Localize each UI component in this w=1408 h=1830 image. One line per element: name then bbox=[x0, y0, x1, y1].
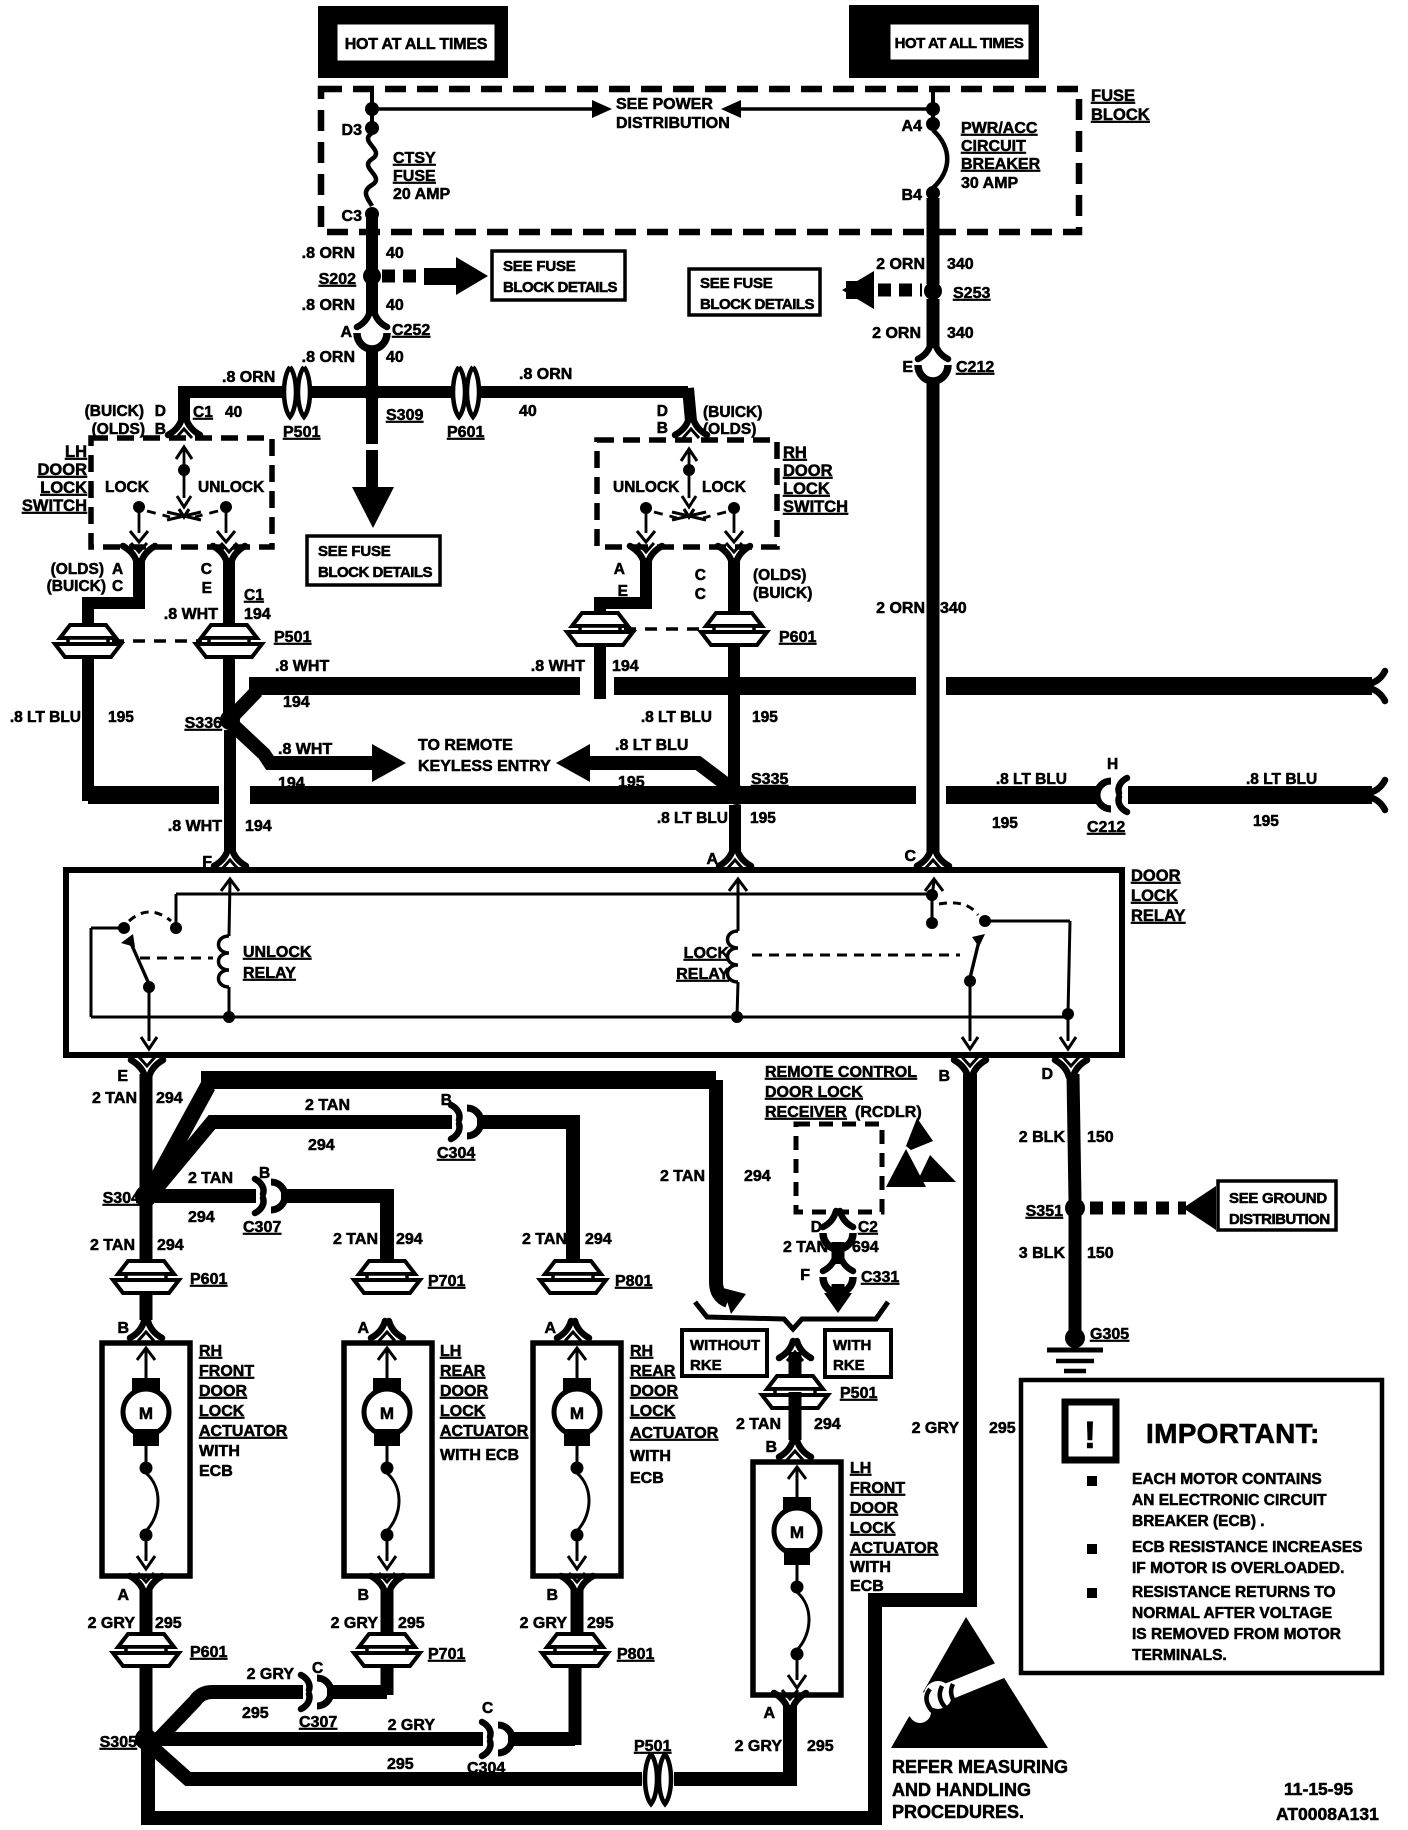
svg-text:2 TAN: 2 TAN bbox=[90, 1237, 135, 1254]
node A4 bbox=[926, 117, 940, 131]
svg-text:3 BLK: 3 BLK bbox=[1019, 1245, 1066, 1262]
svg-text:WITH ECB: WITH ECB bbox=[440, 1447, 519, 1464]
svg-text:2 TAN: 2 TAN bbox=[736, 1416, 781, 1433]
svg-text:295: 295 bbox=[989, 1420, 1016, 1437]
LH switch LOCK contact bbox=[133, 501, 145, 513]
ESD symbol small bbox=[886, 1149, 926, 1187]
splice S309 bbox=[363, 383, 381, 401]
connector C212 pin H inline bbox=[1097, 778, 1127, 812]
svg-text:C252: C252 bbox=[392, 322, 430, 339]
svg-text:C: C bbox=[201, 561, 212, 578]
svg-text:G305: G305 bbox=[1090, 1326, 1129, 1343]
svg-text:LOCK: LOCK bbox=[440, 1403, 486, 1420]
splice S351 bbox=[1065, 1198, 1085, 1218]
node junction above D3 bbox=[365, 102, 379, 116]
svg-text:40: 40 bbox=[386, 349, 404, 366]
svg-text:2 ORN: 2 ORN bbox=[876, 256, 925, 273]
svg-text:40: 40 bbox=[386, 297, 404, 314]
grommet P801 upper bbox=[540, 1261, 606, 1293]
svg-text:ACTUATOR: ACTUATOR bbox=[199, 1423, 288, 1440]
svg-text:S304: S304 bbox=[103, 1190, 140, 1207]
RH switch pin C/C exit bbox=[718, 543, 750, 563]
svg-text:.8 LT BLU: .8 LT BLU bbox=[657, 810, 728, 827]
svg-text:B: B bbox=[357, 1587, 369, 1604]
svg-text:.8 LT BLU: .8 LT BLU bbox=[1246, 771, 1317, 788]
svg-text:C: C bbox=[904, 848, 916, 865]
svg-text:195: 195 bbox=[108, 709, 134, 726]
grommet P801 lower bbox=[542, 1634, 608, 1666]
grommet P501 left bbox=[55, 625, 121, 657]
grommet P601 lower bbox=[113, 1634, 179, 1666]
svg-text:LH: LH bbox=[440, 1343, 461, 1360]
svg-text:DOOR: DOOR bbox=[783, 462, 833, 480]
grommet P701 lower bbox=[354, 1634, 420, 1666]
important note box bbox=[1021, 1380, 1382, 1673]
svg-text:(RCDLR): (RCDLR) bbox=[855, 1104, 922, 1121]
svg-text:340: 340 bbox=[947, 325, 974, 342]
svg-text:A4: A4 bbox=[902, 118, 923, 135]
wire RH pin C/C down to S335 bbox=[728, 558, 740, 800]
wire3 .8 WHT to keyless entry arrow bbox=[234, 726, 374, 763]
svg-text:340: 340 bbox=[947, 256, 974, 273]
svg-text:294: 294 bbox=[396, 1231, 423, 1248]
svg-text:LOCK: LOCK bbox=[40, 479, 87, 497]
svg-text:194: 194 bbox=[612, 658, 639, 675]
svg-text:294: 294 bbox=[308, 1137, 335, 1154]
svg-text:C307: C307 bbox=[299, 1714, 337, 1731]
svg-text:BLOCK DETAILS: BLOCK DETAILS bbox=[700, 296, 815, 313]
svg-text:RECEIVER: RECEIVER bbox=[765, 1104, 847, 1121]
svg-text:B: B bbox=[441, 1092, 452, 1109]
svg-text:.8 ORN: .8 ORN bbox=[302, 349, 355, 366]
svg-text:C: C bbox=[112, 578, 123, 595]
svg-text:P501: P501 bbox=[274, 629, 311, 646]
dashed stub left of S253 bbox=[878, 284, 922, 297]
wire C331 down with arrow bbox=[832, 1284, 845, 1296]
grommet P601 upper bbox=[113, 1261, 179, 1293]
bar1: 2 TAN to RCDLR branch bbox=[150, 1086, 208, 1192]
svg-text:(BUICK): (BUICK) bbox=[85, 403, 144, 420]
svg-text:2 TAN: 2 TAN bbox=[660, 1168, 705, 1185]
svg-text:A: A bbox=[706, 851, 718, 868]
svg-text:.8 WHT: .8 WHT bbox=[164, 606, 218, 623]
svg-text:P501: P501 bbox=[283, 424, 320, 441]
svg-text:LOCK: LOCK bbox=[630, 1403, 676, 1420]
lock contact bbox=[979, 915, 991, 927]
svg-text:RH: RH bbox=[199, 1343, 222, 1360]
svg-text:.8 ORN: .8 ORN bbox=[302, 297, 355, 314]
svg-text:SWITCH: SWITCH bbox=[783, 498, 848, 516]
RH switch LOCK contact bbox=[728, 502, 740, 514]
svg-text:AN ELECTRONIC CIRCUIT: AN ELECTRONIC CIRCUIT bbox=[1132, 1492, 1327, 1509]
wire S304 down to P601 grommet bbox=[140, 1205, 153, 1320]
svg-text:195: 195 bbox=[752, 709, 778, 726]
svg-text:ACTUATOR: ACTUATOR bbox=[850, 1540, 939, 1557]
svg-text:AT0008A131: AT0008A131 bbox=[1276, 1804, 1379, 1824]
svg-text:A: A bbox=[763, 1705, 775, 1722]
svg-text:(BUICK): (BUICK) bbox=[753, 585, 812, 602]
WITH RKE box bbox=[825, 1330, 891, 1377]
svg-text:KEYLESS ENTRY: KEYLESS ENTRY bbox=[418, 758, 551, 775]
svg-text:DOOR: DOOR bbox=[199, 1383, 247, 1400]
svg-text:EACH MOTOR CONTAINS: EACH MOTOR CONTAINS bbox=[1132, 1471, 1322, 1488]
svg-text:DOOR: DOOR bbox=[1131, 867, 1181, 885]
svg-text:E: E bbox=[117, 1068, 128, 1085]
svg-text:S305: S305 bbox=[100, 1734, 137, 1751]
svg-text:A: A bbox=[544, 1320, 556, 1337]
svg-text:A: A bbox=[614, 561, 625, 578]
fuse CTSY 20A element squiggle bbox=[366, 133, 376, 206]
svg-text:LOCK: LOCK bbox=[105, 479, 150, 496]
svg-text:UNLOCK: UNLOCK bbox=[243, 944, 312, 961]
callout box SEE FUSE BLOCK DETAILS (mid left) bbox=[307, 536, 440, 585]
svg-text:ACTUATOR: ACTUATOR bbox=[440, 1423, 529, 1440]
svg-text:WITH: WITH bbox=[850, 1559, 891, 1576]
wire below S309 with break bbox=[366, 398, 378, 444]
svg-text:ECB: ECB bbox=[630, 1470, 664, 1487]
RH front door lock actuator bbox=[102, 1343, 190, 1576]
svg-text:DOOR: DOOR bbox=[630, 1383, 678, 1400]
svg-text:C: C bbox=[695, 586, 706, 603]
svg-text:C304: C304 bbox=[437, 1145, 475, 1162]
bar5: 2 GRY via C304 to P801 bbox=[155, 1732, 483, 1746]
svg-text:2 GRY: 2 GRY bbox=[247, 1666, 295, 1683]
svg-text:RELAY: RELAY bbox=[676, 966, 729, 983]
svg-text:295: 295 bbox=[155, 1615, 182, 1632]
svg-text:FUSE: FUSE bbox=[393, 168, 436, 185]
svg-text:LH: LH bbox=[65, 443, 87, 461]
svg-text:.8 ORN: .8 ORN bbox=[302, 245, 355, 262]
svg-text:UNLOCK: UNLOCK bbox=[613, 479, 680, 496]
wire below bracket notch bbox=[779, 1341, 811, 1361]
svg-text:P601: P601 bbox=[779, 629, 816, 646]
svg-text:294: 294 bbox=[156, 1090, 183, 1107]
splice S336 bbox=[220, 710, 240, 730]
svg-text:ECB: ECB bbox=[850, 1578, 884, 1595]
WITHOUT RKE box bbox=[682, 1330, 767, 1376]
wire4 .8 LT BLU from keyless entry bbox=[556, 744, 590, 782]
svg-text:C: C bbox=[312, 1660, 323, 1677]
LH door lock switch dashed box bbox=[91, 438, 272, 547]
svg-text:.8 LT BLU: .8 LT BLU bbox=[996, 771, 1067, 788]
fat arrow pointing left into callout bbox=[842, 271, 874, 309]
svg-text:C212: C212 bbox=[1087, 819, 1125, 836]
relay internal: pin A arrow bbox=[729, 879, 747, 891]
wire RH pin A/E down-left to grommet and wire1 bbox=[600, 558, 646, 699]
relay pin F connector bbox=[214, 849, 246, 869]
svg-text:SEE FUSE: SEE FUSE bbox=[503, 258, 576, 275]
internal line1 top bbox=[176, 893, 932, 896]
wire 2 ORN from B4 down to S253 bbox=[927, 198, 940, 284]
unlock fixed contact left bbox=[118, 922, 130, 934]
svg-text:194: 194 bbox=[245, 818, 272, 835]
svg-text:D3: D3 bbox=[342, 122, 363, 139]
grommet P501 right bbox=[196, 625, 262, 657]
svg-text:DOOR LOCK: DOOR LOCK bbox=[765, 1084, 863, 1101]
svg-text:P701: P701 bbox=[428, 1273, 465, 1290]
svg-text:2 TAN: 2 TAN bbox=[522, 1231, 567, 1248]
svg-text:(OLDS): (OLDS) bbox=[703, 421, 756, 438]
svg-text:340: 340 bbox=[940, 600, 967, 617]
RH door lock switch connector entry bbox=[675, 418, 707, 438]
svg-text:2 ORN: 2 ORN bbox=[872, 325, 921, 342]
svg-text:BLOCK DETAILS: BLOCK DETAILS bbox=[318, 564, 433, 581]
svg-text:WITH: WITH bbox=[630, 1448, 671, 1465]
svg-text:DOOR: DOOR bbox=[38, 461, 88, 479]
svg-text:A: A bbox=[357, 1320, 369, 1337]
svg-text:PROCEDURES.: PROCEDURES. bbox=[892, 1802, 1024, 1822]
svg-text:REMOTE CONTROL: REMOTE CONTROL bbox=[765, 1064, 917, 1081]
wire LH pin C/E down to S336 bbox=[223, 558, 235, 724]
svg-text:S336: S336 bbox=[185, 715, 222, 732]
wires through lower grommets bbox=[140, 1635, 153, 1730]
svg-text:11-15-95: 11-15-95 bbox=[1284, 1779, 1353, 1799]
callout box SEE FUSE BLOCK DETAILS (upper left) bbox=[492, 251, 625, 300]
wire from left HOT feed into fuse block bbox=[370, 89, 374, 130]
wire 2 ORN long vertical down to relay pin C bbox=[927, 380, 940, 852]
wire grommet to LH front actuator pin B bbox=[789, 1392, 802, 1440]
svg-text:E: E bbox=[202, 580, 212, 597]
svg-text:2 BLK: 2 BLK bbox=[1019, 1129, 1066, 1146]
splice S202 bbox=[363, 267, 381, 285]
LH switch pin C/E exit bbox=[213, 543, 245, 563]
node C3 bbox=[365, 207, 379, 221]
svg-text:B: B bbox=[117, 1320, 129, 1337]
dashed stub right of S351 bbox=[1090, 1202, 1186, 1215]
svg-text:P501: P501 bbox=[840, 1385, 877, 1402]
connector C252 bbox=[357, 311, 387, 349]
svg-text:C1: C1 bbox=[244, 587, 264, 604]
arrow to SEE POWER DISTRIBUTION (right) bbox=[741, 107, 933, 111]
svg-text:LOCK: LOCK bbox=[783, 480, 830, 498]
svg-text:.8 WHT: .8 WHT bbox=[275, 658, 329, 675]
svg-text:SEE GROUND: SEE GROUND bbox=[1229, 1190, 1327, 1207]
ESD symbol large bbox=[891, 1617, 1048, 1748]
bullet 1 bbox=[1087, 1476, 1097, 1486]
RH switch pin A/E exit bbox=[630, 543, 662, 563]
svg-text:195: 195 bbox=[750, 810, 776, 827]
svg-text:RKE: RKE bbox=[690, 1357, 722, 1374]
svg-text:P801: P801 bbox=[615, 1273, 652, 1290]
svg-text:LOCK: LOCK bbox=[684, 945, 730, 962]
svg-text:M: M bbox=[139, 1404, 153, 1423]
svg-text:2 GRY: 2 GRY bbox=[735, 1738, 783, 1755]
svg-text:REAR: REAR bbox=[630, 1363, 676, 1380]
door lock relay box bbox=[66, 870, 1122, 1055]
relay internal: pin C arrow bbox=[925, 879, 943, 891]
svg-text:195: 195 bbox=[992, 815, 1018, 832]
wire C2 to C331 bbox=[832, 1242, 845, 1264]
svg-text:DOOR: DOOR bbox=[440, 1383, 488, 1400]
svg-text:2 GRY: 2 GRY bbox=[331, 1615, 379, 1632]
wire 2 BLK from relay pin D to S351 bbox=[1073, 1074, 1075, 1200]
svg-text:B: B bbox=[546, 1587, 558, 1604]
svg-text:A: A bbox=[340, 324, 352, 341]
svg-text:(BUICK): (BUICK) bbox=[47, 578, 106, 595]
wire 3 BLK S351 to G305 bbox=[1069, 1216, 1082, 1332]
unlock armature bbox=[130, 941, 149, 984]
relay pin A connector bbox=[719, 849, 751, 869]
bar2: 2 TAN via C304 to P801 bbox=[152, 1122, 452, 1194]
svg-text:IS REMOVED FROM MOTOR: IS REMOVED FROM MOTOR bbox=[1132, 1626, 1341, 1643]
relay pin D connector bbox=[1055, 1057, 1087, 1077]
svg-text:DISTRIBUTION: DISTRIBUTION bbox=[616, 115, 730, 132]
svg-text:WITH: WITH bbox=[833, 1337, 871, 1354]
fuse block dashed border bbox=[321, 89, 1079, 232]
svg-text:S253: S253 bbox=[953, 285, 990, 302]
RCDLR dashed box bbox=[796, 1124, 882, 1212]
RH rear door lock actuator bbox=[533, 1343, 621, 1576]
bar4: 2 GRY via C307 to P701 bbox=[152, 1692, 303, 1746]
svg-text:REAR: REAR bbox=[440, 1363, 486, 1380]
svg-text:2 TAN: 2 TAN bbox=[188, 1170, 233, 1187]
lock armature bbox=[970, 941, 979, 978]
svg-text:P801: P801 bbox=[617, 1646, 654, 1663]
svg-text:D: D bbox=[155, 403, 166, 420]
svg-text:S309: S309 bbox=[386, 407, 423, 424]
relay internal: pin F arrow bbox=[221, 879, 239, 891]
arrow to SEE POWER DISTRIBUTION (left) bbox=[372, 107, 592, 111]
svg-text:(OLDS): (OLDS) bbox=[753, 567, 806, 584]
svg-text:!: ! bbox=[1084, 1415, 1097, 1457]
svg-text:WITH: WITH bbox=[199, 1443, 240, 1460]
diagonal S336 to wire1 bbox=[233, 691, 257, 716]
grommet right of P601 bbox=[701, 613, 767, 645]
svg-text:P601: P601 bbox=[190, 1271, 227, 1288]
svg-text:LOCK: LOCK bbox=[702, 479, 747, 496]
bullet 3 bbox=[1087, 1588, 1097, 1598]
svg-text:2 GRY: 2 GRY bbox=[520, 1615, 568, 1632]
svg-text:2 TAN: 2 TAN bbox=[305, 1097, 350, 1114]
svg-text:F: F bbox=[800, 1267, 810, 1284]
svg-text:S202: S202 bbox=[319, 271, 356, 288]
LH switch internals bbox=[176, 447, 192, 459]
connector C2 pin D bbox=[823, 1211, 853, 1249]
svg-text:LOCK: LOCK bbox=[199, 1403, 245, 1420]
wire relay pin E down to S304 bbox=[140, 1074, 153, 1190]
svg-text:150: 150 bbox=[1087, 1245, 1114, 1262]
svg-text:150: 150 bbox=[1087, 1129, 1114, 1146]
svg-text:LOCK: LOCK bbox=[850, 1520, 896, 1537]
svg-text:TERMINALS.: TERMINALS. bbox=[1132, 1647, 1227, 1664]
svg-text:295: 295 bbox=[587, 1615, 614, 1632]
fat arrow to see fuse block details bbox=[424, 257, 488, 295]
svg-text:H: H bbox=[1107, 756, 1118, 773]
wire C252 to S309 bbox=[366, 346, 378, 386]
actuator pin connectors bottom bbox=[130, 1573, 162, 1593]
ground G305 bbox=[1065, 1328, 1085, 1348]
bar6: 2 GRY via P501 to LH front actuator bbox=[151, 1746, 640, 1779]
svg-text:.8 LT BLU: .8 LT BLU bbox=[615, 737, 688, 754]
svg-text:40: 40 bbox=[225, 404, 242, 421]
LH switch UNLOCK contact bbox=[220, 501, 232, 513]
callout box SEE FUSE BLOCK DETAILS (right) bbox=[689, 269, 820, 315]
svg-text:BREAKER: BREAKER bbox=[961, 156, 1041, 173]
svg-text:SWITCH: SWITCH bbox=[22, 497, 87, 515]
svg-text:SEE FUSE: SEE FUSE bbox=[318, 543, 391, 560]
svg-text:40: 40 bbox=[519, 403, 537, 420]
splice S305 bbox=[135, 1728, 157, 1750]
fat arrow to see ground distribution bbox=[1183, 1186, 1216, 1230]
svg-text:RH: RH bbox=[783, 444, 807, 462]
svg-text:S335: S335 bbox=[751, 771, 788, 788]
svg-text:P601: P601 bbox=[190, 1644, 227, 1661]
svg-text:P701: P701 bbox=[428, 1646, 465, 1663]
big down arrow to callout bbox=[352, 487, 394, 528]
svg-text:DISTRIBUTION: DISTRIBUTION bbox=[1229, 1211, 1330, 1228]
svg-text:40: 40 bbox=[386, 245, 404, 262]
svg-text:295: 295 bbox=[387, 1756, 414, 1773]
svg-text:(OLDS): (OLDS) bbox=[51, 561, 104, 578]
svg-text:LOCK: LOCK bbox=[1131, 887, 1178, 905]
svg-text:294: 294 bbox=[157, 1237, 184, 1254]
svg-text:294: 294 bbox=[585, 1231, 612, 1248]
svg-text:194: 194 bbox=[244, 606, 271, 623]
svg-text:S351: S351 bbox=[1026, 1203, 1063, 1220]
grommet left of P601 bbox=[567, 613, 633, 645]
svg-text:CIRCUIT: CIRCUIT bbox=[961, 138, 1026, 155]
actuator pin connectors top bbox=[130, 1321, 162, 1341]
wire C3 down to S202 bbox=[366, 218, 378, 270]
dashed linkage lock bbox=[752, 954, 960, 957]
svg-text:RESISTANCE RETURNS TO: RESISTANCE RETURNS TO bbox=[1132, 1584, 1336, 1601]
svg-text:B: B bbox=[259, 1165, 270, 1182]
svg-text:C3: C3 bbox=[342, 208, 363, 225]
internal bottom rail bbox=[91, 1016, 1068, 1019]
splice S335 bbox=[727, 785, 747, 805]
svg-text:UNLOCK: UNLOCK bbox=[198, 479, 265, 496]
svg-text:HOT AT ALL TIMES: HOT AT ALL TIMES bbox=[345, 36, 488, 53]
svg-text:.8 ORN: .8 ORN bbox=[222, 369, 275, 386]
svg-text:RH: RH bbox=[630, 1343, 653, 1360]
svg-text:(BUICK): (BUICK) bbox=[703, 404, 762, 421]
svg-text:C307: C307 bbox=[243, 1219, 281, 1236]
node B4 bbox=[926, 186, 940, 200]
svg-text:M: M bbox=[790, 1523, 804, 1542]
LH front door lock actuator bbox=[753, 1462, 841, 1695]
svg-text:2 TAN: 2 TAN bbox=[92, 1090, 137, 1107]
wire from right HOT feed bbox=[931, 89, 935, 126]
svg-text:BLOCK: BLOCK bbox=[1091, 106, 1150, 124]
svg-text:WITHOUT: WITHOUT bbox=[690, 1337, 760, 1354]
relay pin B connector bbox=[954, 1057, 986, 1077]
svg-text:294: 294 bbox=[744, 1168, 771, 1185]
power feed label box 2 HOT AT ALL TIMES bbox=[849, 5, 1039, 78]
svg-text:295: 295 bbox=[398, 1615, 425, 1632]
RH switch internals bbox=[681, 449, 697, 461]
svg-text:A: A bbox=[112, 561, 123, 578]
RH switch UNLOCK contact bbox=[640, 502, 652, 514]
unlock fixed contact right bbox=[170, 922, 182, 934]
svg-text:.8 WHT: .8 WHT bbox=[278, 741, 332, 758]
svg-text:DOOR: DOOR bbox=[850, 1500, 898, 1517]
wire S336 down to relay pin F bbox=[224, 730, 236, 852]
splice S253 bbox=[924, 282, 942, 300]
svg-text:E: E bbox=[902, 359, 913, 376]
connector C331 pin F bbox=[823, 1255, 853, 1293]
svg-text:RELAY: RELAY bbox=[1131, 907, 1185, 925]
connector P501 pass-through bbox=[284, 367, 310, 417]
svg-text:FUSE: FUSE bbox=[1091, 87, 1135, 105]
RH door lock switch dashed box bbox=[597, 440, 777, 547]
right corner down to RH switch bbox=[688, 388, 691, 421]
svg-text:295: 295 bbox=[242, 1705, 269, 1722]
svg-text:195: 195 bbox=[1253, 813, 1279, 830]
svg-text:IF MOTOR IS OVERLOADED.: IF MOTOR IS OVERLOADED. bbox=[1132, 1560, 1344, 1577]
wire .8 ORN horizontal run to both door switches bbox=[178, 386, 688, 398]
node junction above A4 bbox=[926, 102, 940, 116]
svg-text:2 GRY: 2 GRY bbox=[388, 1717, 436, 1734]
